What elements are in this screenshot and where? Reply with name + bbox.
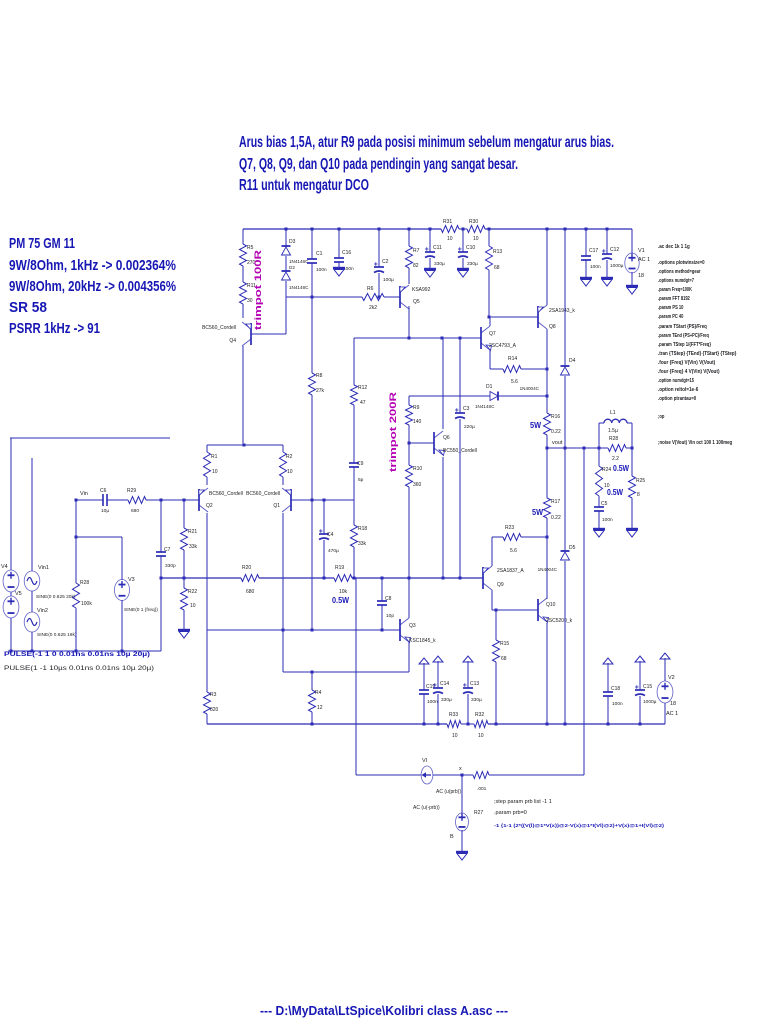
svg-text:V4: V4	[1, 564, 8, 570]
svg-text:SINE(0 0.625 19k): SINE(0 0.625 19k)	[37, 632, 77, 638]
svg-text:220µ: 220µ	[464, 424, 475, 430]
power flag V2	[664, 658, 666, 666]
svg-text:R28: R28	[80, 580, 89, 586]
wire V1 bottom	[631, 272, 633, 286]
wire R25 top	[631, 448, 633, 476]
svg-text:AC (u(-prb)): AC (u(-prb))	[413, 805, 440, 811]
svg-text:2.2: 2.2	[612, 456, 619, 462]
resistor R24	[596, 466, 603, 496]
svg-text:0.22: 0.22	[551, 429, 561, 435]
wire R4 bottom	[311, 712, 313, 724]
wire D4 top	[564, 229, 566, 366]
wire C3 bottom	[459, 419, 461, 578]
wire C15 bottom	[639, 696, 641, 724]
svg-text:D3: D3	[289, 239, 296, 245]
svg-text:.001: .001	[477, 786, 487, 792]
wire bias node to R6	[286, 296, 362, 298]
wire V2 top	[664, 666, 666, 681]
resistor R33	[447, 721, 461, 728]
wire Q3e line	[283, 671, 409, 673]
wire Q4 base	[251, 333, 286, 335]
svg-text:10: 10	[447, 236, 453, 242]
svg-text:R29: R29	[127, 488, 136, 494]
transistor Q2	[198, 489, 200, 511]
svg-text:1N4004C: 1N4004C	[520, 386, 540, 391]
svg-text:10µ: 10µ	[101, 508, 109, 514]
svg-text:1N4148C: 1N4148C	[475, 404, 495, 409]
resistor R25	[629, 476, 636, 498]
ground R25	[626, 528, 638, 530]
svg-text:R16: R16	[551, 414, 560, 420]
capacitor C19	[419, 689, 429, 691]
wire Q10 emitter	[546, 623, 548, 724]
wire Q1 collector	[282, 513, 284, 630]
capacitor C18	[603, 691, 613, 693]
svg-text:V3: V3	[128, 577, 135, 583]
wire R15 top	[495, 610, 497, 640]
junction fb line	[160, 577, 163, 580]
wire C14 bottom	[437, 694, 439, 724]
resistor R28out	[608, 445, 626, 452]
svg-text:.param TStep 1/{FFT*Freq}: .param TStep 1/{FFT*Freq}	[658, 342, 712, 348]
wire C14 top	[437, 669, 439, 688]
resistor R6	[362, 294, 384, 301]
svg-text:R18: R18	[358, 526, 367, 532]
resistor R28	[73, 583, 80, 608]
svg-text:;step param prb list -1 1: ;step param prb list -1 1	[494, 799, 552, 805]
inductor L1	[604, 419, 612, 423]
svg-text:V2: V2	[668, 675, 675, 681]
wire R12 corner	[353, 338, 355, 385]
wire Q2 collector	[206, 513, 208, 630]
wire Q6 emitter	[442, 457, 444, 578]
junction R15 top	[495, 609, 498, 612]
ground C5	[593, 528, 605, 530]
wire C10 bottom	[462, 258, 464, 269]
svg-text:1.5µ: 1.5µ	[608, 428, 618, 434]
svg-text:8: 8	[637, 492, 640, 498]
wire R13 bottom	[488, 270, 490, 317]
wire R4 top	[311, 672, 313, 690]
wire R15 bottom	[495, 662, 497, 724]
svg-text:Q3: Q3	[409, 623, 416, 629]
wire R7 top	[408, 229, 410, 246]
wire C16 bottom	[338, 262, 340, 268]
svg-text:R9: R9	[413, 405, 420, 411]
svg-text:;op: ;op	[658, 414, 665, 420]
svg-text:AC 1: AC 1	[666, 711, 678, 717]
svg-text:.four {Freq} V(Vin) V(Vout): .four {Freq} V(Vin) V(Vout)	[658, 360, 715, 366]
svg-text:R10: R10	[413, 466, 422, 472]
svg-text:C13: C13	[470, 681, 479, 687]
svg-text:BC560_Cordell: BC560_Cordell	[202, 325, 236, 331]
capacitor C3	[455, 412, 465, 414]
svg-text:.param TEnd {PS+PC}/Freq: .param TEnd {PS+PC}/Freq	[658, 333, 709, 339]
svg-text:2SA1943_k: 2SA1943_k	[549, 308, 575, 314]
wire Vin2 bottom	[31, 632, 33, 651]
wire left stub	[10, 437, 170, 439]
svg-text:5.6: 5.6	[511, 379, 518, 385]
svg-text:.options method=gear: .options method=gear	[658, 269, 701, 275]
resistor R2	[280, 452, 287, 477]
wire tail top	[207, 444, 283, 446]
wire Q5 collector	[408, 306, 410, 338]
power flag C19	[423, 663, 425, 671]
svg-text:10k: 10k	[339, 589, 348, 595]
wire R23 lead	[492, 536, 503, 538]
wire R14 to x547	[521, 368, 547, 370]
wire C5 bottom	[598, 511, 600, 529]
svg-text:68: 68	[501, 656, 507, 662]
svg-text:R27: R27	[474, 810, 483, 816]
svg-text:D2: D2	[289, 265, 295, 270]
svg-text:C2: C2	[382, 259, 389, 265]
wire Vin1 stub	[31, 458, 33, 571]
wire L1 right	[631, 423, 633, 448]
svg-text:Q6: Q6	[443, 435, 450, 441]
svg-text:100n: 100n	[316, 267, 327, 273]
resistor R32	[474, 721, 488, 728]
capacitor C11	[425, 251, 435, 253]
svg-text:SINE(0 1 {freq}): SINE(0 1 {freq})	[124, 607, 158, 613]
svg-text:R13: R13	[493, 249, 502, 255]
svg-text:100n: 100n	[602, 517, 613, 523]
wire Q8 emitter up	[546, 229, 548, 305]
svg-text:1N4148C: 1N4148C	[289, 259, 309, 264]
svg-text:33k: 33k	[358, 541, 367, 547]
wire Q6 base	[409, 442, 434, 444]
junctions top rail	[285, 228, 288, 231]
junction R23	[546, 536, 549, 539]
wire VAS node	[354, 337, 481, 339]
wire R23 right	[521, 536, 547, 538]
wire C12 bottom	[606, 260, 608, 278]
svg-text:C1: C1	[316, 251, 323, 257]
svg-text:5.6: 5.6	[510, 548, 517, 554]
wire D5 bottom	[564, 561, 566, 724]
wire R25 bottom	[631, 498, 633, 529]
wire Q9 collector	[491, 590, 493, 610]
wire Q3 collector	[408, 578, 410, 618]
resistor R27	[473, 772, 489, 779]
wire fb line b	[259, 577, 334, 579]
wire D4 bottom	[564, 376, 566, 448]
wire -V rail c	[488, 723, 665, 725]
wire C4 bottom	[323, 540, 325, 578]
wire R8 top	[311, 297, 313, 373]
voltage source Vin2	[24, 612, 40, 632]
svg-text:10: 10	[190, 603, 196, 609]
wire -V rail a	[207, 723, 447, 725]
wire Q1 base	[291, 499, 354, 501]
resistor R11	[240, 282, 247, 304]
diode D1	[490, 392, 498, 401]
resistor R16	[544, 413, 551, 435]
power flag C14	[437, 661, 439, 669]
wire C11 bottom	[429, 258, 431, 269]
wire C11 top	[429, 229, 431, 252]
svg-text:330µ: 330µ	[471, 697, 482, 703]
capacitor C10	[458, 251, 468, 253]
svg-text:1N4004C: 1N4004C	[538, 567, 558, 572]
junction x547	[546, 368, 549, 371]
svg-text:C8: C8	[385, 596, 392, 602]
svg-text:9W/8Ohm, 20kHz -> 0.004356%: 9W/8Ohm, 20kHz -> 0.004356%	[9, 278, 176, 295]
wire R1 lead	[206, 445, 208, 452]
svg-text:SR 58: SR 58	[9, 299, 47, 316]
wire R28 bottom	[75, 608, 77, 651]
wire C7 top	[160, 500, 162, 552]
svg-text:R8: R8	[316, 373, 323, 379]
svg-text:680: 680	[246, 589, 255, 595]
svg-text:2SC5200_k: 2SC5200_k	[546, 618, 573, 624]
svg-text:Q9: Q9	[497, 582, 504, 588]
resistor R21	[181, 528, 188, 550]
wire R10 top	[408, 443, 410, 465]
resistor R7	[406, 246, 413, 268]
junction R4 top	[311, 671, 314, 674]
svg-text:.options numdgt=7: .options numdgt=7	[658, 278, 694, 284]
wire D1 line right	[499, 395, 547, 397]
svg-text:C12: C12	[610, 247, 619, 253]
wire Q7e to R14	[490, 368, 503, 370]
wire R5-R11	[242, 266, 244, 282]
svg-text:Vin1: Vin1	[38, 565, 49, 571]
capacitor C16	[334, 257, 344, 259]
svg-text:.options plotwinsize=0: .options plotwinsize=0	[658, 260, 705, 266]
wire R18 top	[353, 500, 355, 525]
capacitor C2	[374, 266, 384, 268]
ground C11	[424, 268, 436, 270]
svg-text:10: 10	[452, 733, 458, 739]
svg-text:R14: R14	[508, 356, 517, 362]
capacitor C8	[377, 600, 387, 602]
resistor R17	[544, 498, 551, 518]
svg-text:100n: 100n	[612, 701, 623, 707]
svg-text:.option numdgt=15: .option numdgt=15	[658, 378, 694, 384]
svg-text:R30: R30	[469, 219, 478, 225]
resistor R3	[204, 692, 211, 714]
svg-text:470µ: 470µ	[328, 548, 339, 554]
svg-text:5p: 5p	[358, 477, 364, 483]
svg-text:68: 68	[494, 265, 500, 271]
wire R22 top	[183, 578, 185, 588]
svg-text:R17: R17	[551, 499, 560, 505]
svg-text:vout: vout	[552, 440, 563, 446]
wire L1 left	[598, 423, 600, 448]
svg-text:C3: C3	[463, 406, 470, 412]
svg-text:.ac dec 1k 1 1g: .ac dec 1k 1 1g	[658, 244, 690, 250]
ground C17	[580, 277, 592, 279]
svg-text:D1: D1	[486, 384, 493, 390]
wire V4-V5	[10, 592, 12, 596]
svg-text:C14: C14	[440, 681, 449, 687]
svg-text:C15: C15	[643, 684, 652, 690]
svg-text:330p: 330p	[165, 563, 176, 569]
wire C3 top	[459, 338, 461, 413]
svg-text:R3: R3	[210, 692, 217, 698]
svg-text:R24: R24	[602, 467, 611, 473]
resistor R22	[181, 588, 188, 610]
svg-text:.param FFT 8192: .param FFT 8192	[658, 296, 690, 302]
svg-text:KSA992: KSA992	[412, 287, 431, 293]
wire C8 bottom	[381, 605, 383, 630]
diode D4	[561, 365, 570, 367]
wire R1-Q2e	[206, 477, 208, 485]
resistor R29	[128, 497, 146, 504]
wire C17 top	[585, 229, 587, 256]
wire C16 top	[338, 229, 340, 258]
wire Q3 emitter	[408, 642, 410, 672]
bv source B	[456, 813, 469, 831]
svg-text:KSC1845_k: KSC1845_k	[409, 638, 436, 644]
svg-text:10p: 10p	[386, 613, 394, 619]
svg-text:C18: C18	[611, 686, 620, 692]
wire C12 top	[606, 229, 608, 254]
svg-text:.param PS 10: .param PS 10	[658, 305, 683, 311]
svg-text:330µ: 330µ	[434, 261, 445, 267]
wire C2 bottom	[378, 273, 380, 297]
wire R8 bottom	[311, 395, 313, 500]
capacitor C12	[602, 253, 612, 255]
wire R10 bottom	[408, 487, 410, 578]
diode D3	[282, 245, 291, 247]
wire source return	[8, 650, 161, 652]
svg-text:.param PC 40: .param PC 40	[658, 314, 683, 320]
wire B source bottom	[461, 830, 463, 852]
wire R9 corner	[408, 396, 410, 405]
resistor R30	[467, 226, 485, 233]
wire R21 bottom	[183, 550, 185, 578]
wire R17-Q10c	[546, 518, 548, 599]
svg-text:C10: C10	[466, 245, 475, 251]
svg-text:140: 140	[413, 419, 422, 425]
wire probe a	[356, 774, 421, 776]
wire Q9 emitter up	[491, 537, 493, 566]
resistor R23	[503, 534, 521, 541]
svg-text:0.22: 0.22	[551, 515, 561, 521]
wire R6 to Q5 base	[384, 296, 400, 298]
wire C8 top	[381, 578, 383, 601]
svg-text:C7: C7	[164, 547, 171, 553]
svg-text:R4: R4	[315, 690, 322, 696]
capacitor C13	[463, 687, 473, 689]
resistor R15	[493, 640, 500, 662]
resistor R10	[406, 465, 413, 487]
wire C4 top	[323, 500, 325, 534]
wire C18 top	[607, 671, 609, 692]
wire probe b	[433, 774, 473, 776]
svg-text:1000µ: 1000µ	[643, 699, 657, 705]
svg-text:R33: R33	[449, 712, 458, 718]
power flag C15	[639, 661, 641, 669]
wire R5 top	[242, 229, 244, 244]
wire R16 to vout	[546, 435, 548, 448]
voltage source V5	[3, 596, 19, 618]
svg-text:47: 47	[360, 400, 366, 406]
svg-text:680: 680	[131, 508, 139, 514]
ground C10	[457, 268, 469, 270]
wire vout to probe	[583, 448, 585, 775]
wire D3-D2	[285, 256, 287, 271]
voltage source V4	[3, 570, 19, 592]
svg-text:.param Freq=100K: .param Freq=100K	[658, 287, 692, 293]
wire C19 top	[423, 671, 425, 690]
wire top +V rail left	[243, 228, 441, 230]
svg-text:2SA1837_A: 2SA1837_A	[497, 568, 524, 574]
wire C13 top	[467, 669, 469, 688]
svg-text:820: 820	[210, 707, 219, 713]
svg-text:18: 18	[638, 273, 644, 279]
svg-text:.param prb=0: .param prb=0	[494, 810, 527, 816]
svg-text:330µ: 330µ	[467, 261, 478, 267]
wire Q10 base line	[492, 609, 538, 611]
svg-text:SINE(0 0.625 20k): SINE(0 0.625 20k)	[36, 594, 76, 600]
svg-text:R28: R28	[609, 436, 618, 442]
wire B source top	[461, 775, 463, 814]
resistor R12	[351, 385, 358, 405]
capacitor C7	[156, 551, 166, 553]
wire R12-C9	[353, 405, 355, 463]
svg-text:R11 untuk mengatur DCO: R11 untuk mengatur DCO	[239, 177, 369, 194]
svg-text:10: 10	[478, 733, 484, 739]
wire top +V rail right	[485, 228, 632, 230]
wire C7 bottom	[160, 556, 162, 578]
wire C18 bottom	[607, 696, 609, 724]
wire x547 mid1	[546, 369, 548, 396]
svg-text:100n: 100n	[590, 264, 601, 270]
svg-text:R32: R32	[475, 712, 484, 718]
svg-text:R19: R19	[335, 565, 344, 571]
junction Q3 base line	[282, 629, 285, 632]
junction VAS node	[408, 337, 411, 340]
svg-text:0.5W: 0.5W	[613, 464, 629, 473]
wire Vin1-Vin2	[31, 591, 33, 612]
transistor Q3	[399, 619, 401, 641]
wire V3 bottom	[121, 600, 123, 651]
junctions -V rail	[311, 723, 314, 726]
junction R13/Q7C	[488, 316, 491, 319]
svg-text:2SC4793_A: 2SC4793_A	[489, 343, 517, 349]
junction tail	[243, 444, 246, 447]
svg-text:V5: V5	[15, 591, 22, 597]
wire R24-C5	[598, 496, 600, 507]
wire L1 lead r	[627, 422, 632, 424]
wire x312 lower	[311, 500, 313, 630]
junction Q6 base	[408, 442, 411, 445]
wire R9-Q6b	[408, 425, 410, 443]
wire D3 top	[285, 229, 287, 246]
svg-text:R15: R15	[500, 641, 509, 647]
wire R21 top	[183, 500, 185, 528]
transistor Q8	[537, 306, 539, 328]
wire Q8 base line	[489, 316, 538, 318]
svg-text:27k: 27k	[316, 388, 325, 394]
capacitor C15	[635, 689, 645, 691]
svg-text:Arus bias 1,5A, atur R9 pada p: Arus bias 1,5A, atur R9 pada posisi mini…	[239, 134, 614, 151]
svg-text:0.5W: 0.5W	[607, 488, 623, 497]
svg-text:10: 10	[212, 469, 218, 475]
resistor R8	[309, 373, 316, 395]
svg-text:--- D:\MyData\LtSpice\Kolibri: --- D:\MyData\LtSpice\Kolibri class A.as…	[260, 1003, 508, 1018]
resistor R20	[241, 575, 259, 582]
junction source return	[10, 650, 13, 653]
svg-text:D4: D4	[569, 358, 576, 364]
svg-text:9W/8Ohm, 1kHz -> 0.002364%: 9W/8Ohm, 1kHz -> 0.002364%	[9, 257, 176, 274]
svg-text:Vin2: Vin2	[37, 608, 48, 614]
power flag C13	[467, 661, 469, 669]
resistor R4	[309, 690, 316, 712]
